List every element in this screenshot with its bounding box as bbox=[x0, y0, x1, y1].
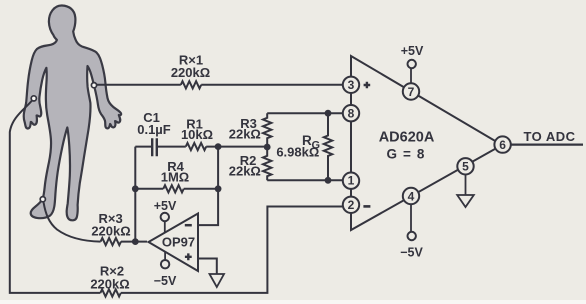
op-amp OP97 bbox=[149, 214, 199, 272]
svg-text:220kΩ: 220kΩ bbox=[90, 277, 129, 292]
electrode (right hand) bbox=[91, 83, 96, 88]
svg-text:5: 5 bbox=[462, 160, 469, 174]
wire R4 branch bbox=[135, 188, 218, 190]
junction node RG bottom bbox=[325, 177, 332, 184]
svg-text:+5V: +5V bbox=[154, 199, 177, 213]
svg-text:22kΩ: 22kΩ bbox=[229, 127, 261, 142]
electrode (left hand) bbox=[31, 96, 36, 101]
svg-text:1MΩ: 1MΩ bbox=[161, 169, 189, 184]
resistor Rx2 bbox=[100, 289, 120, 296]
svg-text:+5V: +5V bbox=[401, 44, 424, 58]
resistor R4 bbox=[163, 185, 183, 192]
svg-text:TO ADC: TO ADC bbox=[523, 129, 575, 144]
svg-text:−5V: −5V bbox=[154, 274, 177, 288]
pin 1 bbox=[343, 173, 359, 189]
resistor R1 bbox=[186, 143, 206, 150]
svg-text:2: 2 bbox=[348, 198, 355, 212]
junction node R1/feedback bbox=[215, 143, 222, 150]
OP97 +5V supply bbox=[164, 221, 166, 232]
svg-text:−5V: −5V bbox=[400, 245, 423, 259]
resistor RG bbox=[324, 113, 332, 180]
pin 4 with -5V bbox=[410, 205, 412, 232]
resistor R2 bbox=[263, 147, 271, 180]
capacitor C1 bbox=[152, 138, 157, 156]
svg-text:OP97: OP97 bbox=[162, 234, 195, 249]
wire OP97 non-inverting input to ground bbox=[199, 259, 217, 275]
electrode (left leg) bbox=[40, 197, 45, 202]
wire attenuator bottom to pin 1 bbox=[267, 179, 344, 181]
wire left-leg electrode to Rx3 to OP97 output node bbox=[44, 202, 148, 242]
wire C1 branch (node to R1 to attenuator node) bbox=[135, 146, 267, 148]
ground (OP97 + input) bbox=[210, 274, 225, 287]
wire right feedback vertical to OP97 inverting input bbox=[199, 147, 218, 226]
svg-text:G = 8: G = 8 bbox=[387, 147, 426, 162]
patient body figure bbox=[24, 5, 121, 220]
svg-text:1: 1 bbox=[348, 174, 355, 188]
pin 6 output bbox=[511, 144, 583, 146]
junction node R4 left bbox=[132, 185, 139, 192]
resistor R3 bbox=[263, 113, 271, 147]
pin 2 bbox=[343, 197, 359, 213]
svg-text:AD620A: AD620A bbox=[379, 130, 435, 146]
resistor Rx1 bbox=[181, 81, 201, 88]
svg-text:8: 8 bbox=[348, 107, 355, 121]
wire left-hand electrode down left side, bottom loop to pin 2 bbox=[10, 101, 344, 293]
in-amp AD620A bbox=[351, 56, 502, 230]
svg-text:3: 3 bbox=[348, 78, 355, 92]
svg-text:6.98kΩ: 6.98kΩ bbox=[276, 144, 319, 159]
OP97 -5V supply bbox=[164, 252, 166, 260]
junction node OP97 output bbox=[132, 238, 139, 245]
svg-text:220kΩ: 220kΩ bbox=[91, 223, 130, 238]
ground (pin 5) bbox=[457, 195, 474, 207]
pin 3 bbox=[343, 77, 359, 93]
svg-text:220kΩ: 220kΩ bbox=[171, 65, 210, 80]
junction node R4 right bbox=[215, 185, 222, 192]
pin 8 bbox=[343, 105, 359, 121]
junction node R3/R2 bbox=[264, 144, 271, 151]
svg-text:0.1µF: 0.1µF bbox=[137, 122, 171, 137]
svg-text:4: 4 bbox=[408, 189, 415, 203]
junction node RG top bbox=[325, 110, 332, 117]
svg-text:22kΩ: 22kΩ bbox=[229, 164, 261, 179]
svg-text:10kΩ: 10kΩ bbox=[181, 127, 213, 142]
wire right-hand electrode to pin 3 bbox=[97, 84, 343, 86]
wire left feedback vertical bbox=[134, 147, 136, 242]
pin 7 with +5V bbox=[410, 68, 412, 83]
wire attenuator top to pin 8 bbox=[267, 112, 344, 114]
pin 5 with ground bbox=[465, 175, 467, 195]
svg-text:6: 6 bbox=[499, 138, 506, 152]
resistor Rx3 bbox=[101, 238, 121, 245]
svg-text:7: 7 bbox=[408, 85, 415, 99]
